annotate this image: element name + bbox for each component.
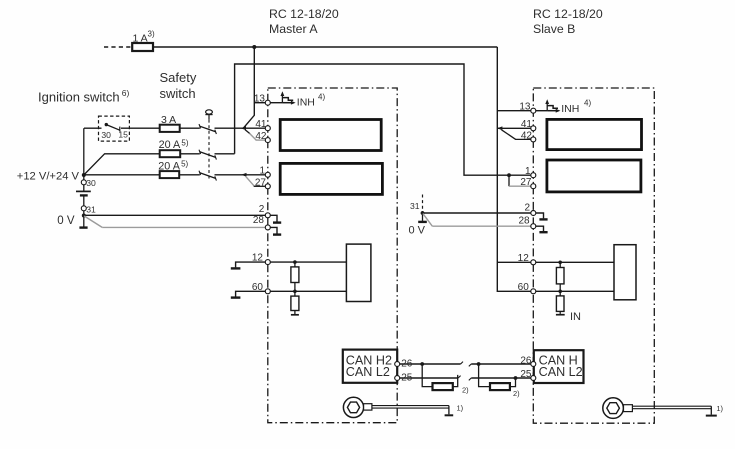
pin M25 [395,372,413,383]
terminator at slave pin 2 [533,213,547,219]
svg-text:42: 42 [255,131,267,142]
svg-text:13: 13 [519,101,531,112]
wire: vertical from ignition row to +12V node [83,128,85,175]
svg-text:30: 30 [86,178,96,188]
svg-text:15: 15 [118,129,128,139]
svg-text:41: 41 [255,119,267,130]
terminator at master pin 2 [268,215,281,222]
svg-text:CAN L2: CAN L2 [539,365,583,379]
node: junction CAN H right [477,362,481,366]
pin M13 [254,93,270,105]
resistor R3 (slave, between 12 and 60) [556,261,564,292]
svg-text:4): 4) [318,92,325,101]
ignition switch S1 (dashed box, contacts 30/15) [38,88,160,141]
pin S25 [520,369,535,380]
pin S1 [525,166,536,178]
wire: master pin 60 row into input block [268,290,347,292]
wire: drop to slave pin 27 (gray) [509,175,533,186]
connector fan: slave pins 41/42 [497,126,533,139]
wire: 0V to master pin 2 [84,214,268,216]
pin S2 [524,203,535,216]
wire: top feed from F1 to slave drop [153,46,497,48]
svg-text:Slave B: Slave B [533,22,575,36]
svg-text:2: 2 [524,203,530,214]
svg-text:Master A: Master A [269,22,318,36]
wire: master pin13 stub [254,102,267,104]
svg-text:1 A: 1 A [133,33,148,45]
svg-text:4): 4) [584,98,591,107]
wire: dashed battery feed stub to fuse F1 [104,46,132,48]
wire: CAN H bus left section (pin 26 master) [397,362,463,364]
svg-text:+12 V/+24 V: +12 V/+24 V [17,171,80,183]
sensor terminal at master pin 60 [231,291,268,297]
resistor R2 (master, below 60) [291,290,299,315]
svg-text:INH: INH [297,97,315,109]
svg-text:30: 30 [101,130,111,140]
wire: slave 0V to pin 2 [423,212,534,214]
wire: slave pin 12 row into input block [497,261,614,263]
svg-text:0 V: 0 V [57,215,75,227]
node labels: titles [269,7,603,36]
svg-text:Ignition switch: Ignition switch [38,90,120,105]
svg-text:13: 13 [254,93,266,104]
svg-text:1): 1) [457,404,464,413]
fuse F1 1A [132,30,155,52]
terminator at slave pin 28 [533,226,547,232]
svg-text:31: 31 [86,205,96,215]
switch contact S2c (row3) [199,171,242,181]
svg-text:60: 60 [518,282,530,293]
svg-text:5): 5) [181,160,188,169]
controller box U1 Master A (dash-dot border) [268,88,397,423]
pin M26 [395,359,413,370]
pin S28 [518,215,535,228]
svg-text:12: 12 [518,253,530,264]
pin S42 [521,130,536,142]
wire: 0V to master pin 28 (gray) [84,216,268,227]
output block A1 (master top) [280,120,381,151]
pin S12 [518,253,536,265]
svg-text:12: 12 [252,253,264,264]
svg-text:IN: IN [570,311,581,323]
svg-text:31: 31 [410,201,420,211]
fuse F4 20A (row 3) [158,160,200,179]
svg-text:41: 41 [521,119,533,130]
node: junction on slave pin1 wire [507,173,511,177]
node: junction CAN H left [420,362,424,366]
fuse F3 20A (row 2) [159,138,200,157]
ground terminal 31 / 0V (slave side) [409,195,427,237]
pin S27 [520,177,535,189]
wire: master pin 12 row into input block [268,261,347,263]
svg-text:27: 27 [255,177,267,188]
svg-text:2): 2) [513,389,520,398]
wire: CAN L bus right section (to slave pin 25) [469,378,534,380]
svg-text:1: 1 [259,166,265,177]
pin M27 [255,177,270,189]
resistor R4 (slave, below 60, input IN) [556,290,581,324]
INH input symbol, slave pin 13 [533,98,591,114]
svg-text:Safety: Safety [160,70,197,85]
svg-text:2): 2) [462,386,469,395]
output block A5 (slave bottom) [547,160,641,192]
wire: slave pin 60 row into input block [533,290,614,292]
wire: row3 from +12V node to fuse F4 [84,174,160,176]
CAN label box master (CAN H2 / CAN L2) [343,350,397,383]
switch contact S2a (row1) [199,124,241,134]
pin M1 [259,166,270,178]
svg-text:28: 28 [253,215,265,226]
ground terminal 0V (bar) [57,215,87,227]
svg-text:27: 27 [520,177,532,188]
resistor R5 termination 120R (left, footnote 2) [422,364,469,395]
controller box U2 Slave B (dash-dot border) [533,88,654,423]
pin M42 [255,131,270,142]
svg-text:CAN L2: CAN L2 [346,365,390,379]
pin M28 [253,215,270,230]
svg-text:1): 1) [716,404,723,413]
svg-text:3): 3) [148,30,155,39]
wire: row2 up-and-over to Slave pins 1/27 [235,64,534,175]
output block A4 (slave top) [547,119,642,149]
svg-text:26: 26 [401,359,413,370]
pin M12 [252,253,270,265]
wire: +12V node diagonal to row2 fuse [84,154,160,175]
resistor R6 termination 120R (right, footnote 2) [479,364,521,398]
node: junction on top feed at master drop [252,45,256,49]
pin M41 [255,119,270,131]
svg-text:25: 25 [520,369,532,380]
node: junction CAN L right [514,376,518,380]
input block A3 (master lower) [346,244,371,301]
resistor R1 (master, between 12 and 60) [291,260,299,291]
battery G1 with terminals 30/31 [17,171,96,216]
wire: CAN L bus left section (pin 25 master) [397,376,460,378]
terminator at master pin 28 [268,227,281,234]
svg-text:5): 5) [181,138,188,147]
connector fan: master pins 1/27 [241,173,268,186]
INH input symbol, master pin 13 [268,91,326,108]
sensor terminal at master pin 12 [231,262,268,268]
pin S13 [519,101,535,113]
pin M2 [259,204,271,218]
svg-text:INH: INH [561,103,579,115]
diagnostic key connector X2 (slave, footnote 1) [603,398,724,419]
output block A2 (master bottom) [280,163,382,194]
svg-text:2: 2 [259,204,265,215]
svg-text:25: 25 [401,372,413,383]
wire: slave 0V to pin 28 (gray) [423,214,533,227]
wire: slave pin 13 stub [497,110,533,112]
safety switch S2 (3-pole with mushroom head) [160,70,213,179]
CAN label box slave (CAN H / CAN L2) [534,350,584,383]
svg-text:28: 28 [518,215,530,226]
wire: CAN H bus right section (to slave pin 26) [469,364,534,366]
pin S41 [521,119,536,131]
pin S60 [518,282,536,294]
pin S26 [520,356,535,367]
svg-text:RC 12-18/20: RC 12-18/20 [533,7,603,21]
input block A6 (slave lower) [614,245,636,300]
fuse F2 3A [160,114,200,132]
switch contact S2b (row2) [199,150,235,160]
svg-text:0 V: 0 V [409,225,426,237]
svg-text:1: 1 [525,166,531,177]
wire: master feed drop (vertical x=254) with diagonal to 41/42 fan [243,47,254,128]
svg-text:RC 12-18/20: RC 12-18/20 [269,7,339,21]
svg-text:42: 42 [521,130,533,141]
connector fan: master pins 41/42 [241,126,268,140]
pin M60 [252,282,270,294]
node: 0V junction [82,214,86,218]
svg-text:switch: switch [160,86,196,101]
svg-text:6): 6) [122,88,130,98]
svg-text:26: 26 [520,356,532,367]
wire: slave feed drop (vertical x=497) from top wire to pin 60 row [497,47,533,291]
diagnostic key connector X1 (master, footnote 1) [343,397,463,417]
svg-text:60: 60 [252,282,264,293]
